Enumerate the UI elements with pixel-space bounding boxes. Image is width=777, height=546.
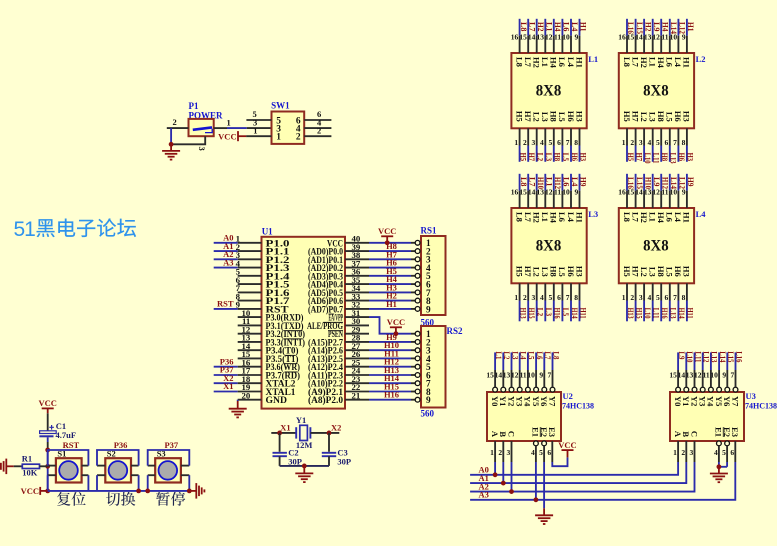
VCC port bottom left (21, 486, 48, 496)
ground below U3 (710, 474, 728, 483)
wire C2 down (279, 456, 281, 466)
svg-text:2: 2 (296, 133, 301, 143)
L3 top pin 12 wire net H12 (545, 174, 563, 208)
svg-text:(A8)P2.0: (A8)P2.0 (308, 395, 343, 406)
svg-text:L4: L4 (566, 212, 576, 223)
U1 right pin names (307, 239, 343, 406)
svg-text:15: 15 (669, 371, 677, 380)
svg-text:L6: L6 (557, 212, 567, 222)
SW1 pin 5 stub (246, 119, 271, 121)
svg-text:13: 13 (644, 188, 652, 197)
L1 bottom pin 6 wire net L5 (557, 128, 571, 162)
svg-text:L5: L5 (665, 267, 675, 277)
svg-text:1: 1 (622, 293, 626, 302)
watermark 51hei forum text (14, 218, 137, 241)
svg-text:7: 7 (566, 138, 570, 147)
svg-text:15: 15 (519, 188, 527, 197)
SW1 pin 1 stub (246, 135, 271, 137)
svg-text:14: 14 (495, 371, 503, 380)
L2 top pin 15 wire net L15 (627, 19, 645, 53)
U3 pin B stub (685, 441, 687, 462)
U2 pin C wire to A2 (511, 441, 513, 462)
svg-text:L7: L7 (630, 57, 640, 68)
wire net H1 U1 pin 32 to RS1 pin 9 (345, 308, 369, 310)
wire RST vertical (47, 450, 49, 491)
U1 pin 8 stub (238, 300, 262, 302)
junction U3 enable ground (717, 464, 722, 469)
L2 bottom pin 1 wire net H5 (622, 128, 636, 162)
svg-text:6: 6 (557, 293, 561, 302)
ground stem below U2 (543, 508, 545, 515)
svg-text:11: 11 (661, 188, 668, 197)
ground below U2 (535, 515, 553, 524)
svg-text:6: 6 (665, 293, 669, 302)
U3 pin E1 wire to ground (717, 441, 722, 446)
svg-text:4: 4 (540, 138, 544, 147)
svg-text:L6: L6 (665, 212, 675, 222)
wire net A1 at U1 pin 2 (214, 250, 238, 252)
svg-text:L8: L8 (514, 212, 524, 222)
svg-text:H1: H1 (579, 22, 589, 32)
connector P1 POWER (189, 101, 224, 136)
svg-text:10: 10 (670, 188, 678, 197)
U3 inner names (673, 396, 740, 438)
svg-text:11: 11 (661, 33, 668, 42)
svg-text:4: 4 (540, 293, 544, 302)
L1 top pin 12 wire net H4 (545, 19, 563, 53)
svg-text:2: 2 (523, 293, 527, 302)
junction X1 node (277, 431, 282, 436)
L3 inner pin names (514, 212, 584, 278)
svg-text:L6: L6 (665, 57, 675, 67)
svg-text:L4: L4 (566, 57, 576, 68)
L4 top pin 13 wire net L9 (644, 174, 662, 208)
wire net H10 U1 pin 27 to RS2 pin 3 (345, 349, 369, 351)
svg-text:9: 9 (574, 188, 578, 197)
U3 output Y5 pin 10 wire net L14 (710, 351, 728, 392)
SW1 pin 2 stub (304, 135, 331, 137)
svg-text:L2: L2 (639, 112, 649, 122)
U1 pin 30 stub (345, 324, 369, 326)
U3 output Y1 pin 14 wire net L10 (678, 351, 696, 392)
L4 bottom pin 8 wire net H11 (682, 283, 696, 321)
wire X2 to C3 (328, 433, 330, 452)
wire net P37 at U1 pin 17 (214, 374, 238, 376)
svg-text:A3: A3 (223, 257, 233, 267)
svg-text:H1: H1 (574, 57, 584, 68)
svg-text:Y7: Y7 (730, 396, 740, 407)
wire bottom legs of S3 (148, 475, 190, 491)
svg-text:P36: P36 (114, 440, 128, 450)
U2 pin E1 wire to A3 (534, 441, 539, 446)
power VCC at RS2 pin 1 (387, 317, 405, 327)
svg-text:13: 13 (537, 33, 545, 42)
svg-text:74HC138: 74HC138 (562, 402, 594, 411)
svg-text:30P: 30P (337, 456, 351, 466)
svg-text:L6: L6 (557, 57, 567, 67)
pin 1 of P1 / wire to SW1 pin 3 (214, 127, 227, 129)
wire net RST at U1 pin 9 (214, 308, 238, 310)
svg-text:13: 13 (537, 188, 545, 197)
svg-text:10: 10 (527, 371, 535, 380)
wire X2 stub (310, 432, 339, 434)
svg-text:1: 1 (514, 138, 518, 147)
svg-text:12: 12 (545, 33, 553, 42)
svg-text:H1: H1 (686, 22, 696, 32)
svg-text:H4: H4 (549, 57, 559, 69)
S3 pin stubs (148, 466, 190, 476)
svg-text:L7: L7 (630, 212, 640, 223)
svg-text:L1: L1 (588, 54, 598, 64)
L3 bottom pin 1 wire net H13 (514, 283, 528, 321)
svg-text:X2: X2 (331, 422, 341, 432)
svg-text:13: 13 (644, 33, 652, 42)
wire C1 to RST node (47, 437, 49, 442)
junction U2.A on A0 (493, 472, 498, 477)
wire net H15 U1 pin 22 to RS2 pin 8 (345, 391, 369, 393)
wire top bracket of S3 (148, 450, 190, 466)
svg-text:9: 9 (682, 188, 686, 197)
U2 pin A wire to A0 (494, 441, 496, 462)
wire net H14 U1 pin 23 to RS2 pin 7 (345, 382, 369, 384)
svg-text:H8: H8 (553, 153, 563, 162)
pin 3 of P1 (171, 136, 205, 144)
L3 bottom pin 4 wire net L3 (540, 283, 554, 321)
svg-text:14: 14 (635, 188, 643, 197)
svg-text:H2: H2 (639, 212, 649, 223)
RS2 pin circles (415, 331, 420, 402)
svg-text:L2: L2 (536, 308, 546, 317)
wire net A1 bus (470, 462, 686, 483)
U1 pin 29 stub (345, 333, 369, 335)
L2 top pin 9 wire net H1 (682, 19, 696, 53)
svg-text:L2: L2 (536, 153, 546, 162)
svg-text:L5: L5 (665, 112, 675, 122)
svg-text:2: 2 (317, 126, 321, 136)
svg-text:4.7uF: 4.7uF (56, 430, 77, 440)
U3 pin A stub (677, 441, 679, 462)
svg-text:H3: H3 (682, 111, 692, 122)
svg-text:P37: P37 (164, 440, 178, 450)
svg-text:L1: L1 (540, 57, 550, 67)
svg-text:12: 12 (511, 371, 519, 380)
ground left of R1 (0, 459, 6, 475)
L2 top pin 12 wire net H4 (652, 19, 670, 53)
L1 bottom pin 1 wire net H5 (514, 128, 528, 162)
svg-text:H8: H8 (549, 266, 559, 277)
svg-text:15: 15 (486, 371, 494, 380)
svg-text:8X8: 8X8 (643, 238, 669, 255)
svg-text:RST: RST (217, 299, 234, 309)
svg-text:L13: L13 (669, 308, 679, 319)
svg-text:16: 16 (618, 33, 626, 42)
svg-text:8: 8 (574, 293, 578, 302)
wire net X1 at U1 pin 19 (214, 391, 238, 393)
svg-text:RS2: RS2 (447, 326, 464, 336)
svg-text:H5: H5 (514, 266, 524, 277)
wire rail to right ground (189, 490, 196, 492)
svg-text:6: 6 (665, 138, 669, 147)
U1 pin 10 stub (238, 316, 262, 318)
svg-text:14: 14 (528, 188, 536, 197)
svg-text:3: 3 (531, 138, 535, 147)
svg-text:9: 9 (426, 396, 431, 406)
svg-text:VCC: VCC (378, 226, 396, 236)
svg-text:L5: L5 (561, 308, 571, 317)
svg-text:16: 16 (511, 188, 519, 197)
wire net H6 U1 pin 37 to RS1 pin 4 (345, 267, 369, 269)
svg-text:2: 2 (523, 138, 527, 147)
svg-text:2: 2 (498, 448, 502, 457)
svg-text:L5: L5 (557, 267, 567, 277)
svg-text:1: 1 (514, 293, 518, 302)
svg-text:10K: 10K (22, 468, 38, 478)
wire net A3 bus (470, 462, 735, 500)
L1 top pin 16 wire net L8 (511, 19, 529, 53)
svg-text:L8: L8 (622, 212, 632, 222)
svg-text:8X8: 8X8 (536, 83, 562, 100)
U2 output Y0 pin 15 wire net L1 (486, 351, 504, 392)
wire top bracket of S2 (97, 450, 139, 466)
junction X2 node (327, 431, 332, 436)
svg-text:H13: H13 (518, 308, 528, 319)
SW1 pin 4 stub (304, 127, 331, 129)
svg-text:R1: R1 (22, 453, 32, 463)
op: U1 microcontroller body (262, 227, 346, 409)
L3 top pin 15 wire net L7 (519, 174, 537, 208)
svg-text:L3: L3 (588, 209, 598, 219)
svg-text:8: 8 (682, 293, 686, 302)
wire bottom rail of buttons (48, 490, 190, 492)
led matrix L4 8X8 (619, 208, 706, 283)
svg-text:H2: H2 (532, 212, 542, 223)
svg-text:H16: H16 (553, 308, 563, 319)
svg-text:H9: H9 (579, 177, 589, 187)
svg-text:L4: L4 (673, 57, 683, 68)
U1 pin 15 stub (238, 357, 262, 359)
L2 top pin 11 wire net L14 (661, 19, 679, 53)
svg-text:12: 12 (652, 188, 660, 197)
push button S3 暂停 (155, 448, 181, 482)
svg-text:H8: H8 (549, 111, 559, 122)
wire cap ground rail (280, 465, 329, 467)
svg-text:L7: L7 (523, 57, 533, 68)
svg-text:12: 12 (694, 371, 702, 380)
U1 pin 20 GND wire (238, 399, 262, 401)
svg-text:8X8: 8X8 (643, 83, 669, 100)
svg-text:12: 12 (652, 33, 660, 42)
U2 pin B wire to A1 (502, 441, 504, 462)
L4 top pin 15 wire net L15 (627, 174, 645, 208)
junction crystal ground (302, 464, 307, 469)
svg-text:SW1: SW1 (271, 101, 290, 111)
power VCC above C1 (38, 398, 56, 408)
svg-text:30P: 30P (288, 456, 302, 466)
L4 inner pin names (622, 212, 692, 278)
U2 pin E2 wire to ground (542, 441, 547, 446)
svg-text:U3: U3 (746, 391, 756, 401)
svg-text:3: 3 (690, 448, 694, 457)
led matrix L2 8X8 (619, 53, 706, 128)
wire bottom legs of S1 (48, 475, 89, 491)
L1 top pin 14 wire net H2 (528, 19, 546, 53)
svg-text:10: 10 (670, 33, 678, 42)
L2 bottom pin 2 wire net H7 (630, 128, 644, 162)
junction U2.C on A2 (509, 489, 514, 494)
junction rail S3 right (187, 489, 192, 494)
L2 bottom pin 7 wire net H6 (673, 128, 687, 162)
svg-text:H9: H9 (686, 177, 696, 187)
junction U2.B on A1 (501, 481, 506, 486)
svg-text:3: 3 (197, 147, 207, 151)
junction rail S2 right (136, 489, 141, 494)
push button S2 切换 (105, 448, 131, 482)
svg-text:4: 4 (647, 293, 651, 302)
svg-text:GND: GND (266, 396, 288, 406)
svg-text:6: 6 (547, 448, 551, 457)
svg-text:9: 9 (539, 371, 543, 380)
L1 bottom pin 4 wire net L3 (540, 128, 554, 162)
svg-text:Y7: Y7 (547, 396, 557, 407)
svg-text:X1: X1 (223, 381, 233, 391)
L2 top pin 14 wire net H2 (635, 19, 653, 53)
junction VCC pin40 (385, 240, 390, 245)
U2 output Y5 pin 10 wire net L6 (527, 351, 545, 392)
L1 bottom pin 3 wire net L2 (531, 128, 545, 162)
svg-text:H3: H3 (686, 153, 696, 162)
svg-text:3: 3 (639, 138, 643, 147)
L2 bottom pin 5 wire net H8 (656, 128, 670, 162)
wire ground to R1 (6, 465, 13, 467)
svg-text:10: 10 (710, 371, 718, 380)
L4 bottom pin 5 wire net H16 (656, 283, 670, 321)
wire net H2 U1 pin 33 to RS1 pin 8 (345, 300, 369, 302)
L4 top pin 14 wire net H10 (635, 174, 653, 208)
svg-text:H1: H1 (682, 212, 692, 223)
wire net A3 at U1 pin 4 (214, 267, 238, 269)
svg-text:L2: L2 (532, 112, 542, 122)
VCC port at SW1 pin 1 (218, 131, 246, 141)
svg-text:16: 16 (618, 188, 626, 197)
power VCC at U1 pin 40 (378, 226, 396, 236)
L4 top pin 9 wire net H9 (682, 174, 696, 208)
svg-text:RS1: RS1 (421, 226, 438, 236)
resistor network RS1 560 (421, 226, 446, 328)
svg-text:VCC: VCC (218, 131, 236, 141)
ground at P1 (162, 151, 180, 160)
svg-text:12: 12 (545, 188, 553, 197)
ground stem at U1 GND (237, 401, 239, 409)
svg-text:7: 7 (548, 371, 552, 380)
svg-text:H1: H1 (574, 212, 584, 223)
svg-text:U2: U2 (563, 391, 573, 401)
L2 top pin 13 wire net L9 (644, 19, 662, 53)
svg-text:10: 10 (562, 33, 570, 42)
L1 bottom pin 7 wire net H6 (566, 128, 580, 162)
ground stem crystal (303, 466, 305, 473)
svg-text:1: 1 (253, 126, 257, 136)
capacitor C3 30P (322, 447, 351, 466)
svg-text:H3: H3 (682, 266, 692, 277)
svg-text:H5: H5 (514, 111, 524, 122)
svg-text:9: 9 (574, 33, 578, 42)
wire net H4 U1 pin 35 to RS1 pin 6 (345, 283, 369, 285)
svg-text:9: 9 (682, 33, 686, 42)
junction VCC rail left (45, 489, 50, 494)
L4 top pin 16 wire net L16 (618, 174, 636, 208)
svg-text:9: 9 (426, 305, 431, 315)
label 切换 (106, 492, 135, 506)
svg-text:L10: L10 (643, 153, 653, 164)
svg-text:X1: X1 (280, 422, 290, 432)
ground stem below U3 (718, 467, 720, 474)
wire net H7 U1 pin 38 to RS1 pin 3 (345, 258, 369, 260)
svg-text:6: 6 (557, 138, 561, 147)
U2 pin E3 wire to VCC (551, 441, 553, 462)
L1 bottom pin 5 wire net H8 (549, 128, 563, 162)
svg-text:5: 5 (549, 293, 553, 302)
wire net A2 bus (470, 462, 694, 492)
svg-text:8X8: 8X8 (536, 238, 562, 255)
ground at U1 pin 20 (229, 409, 247, 418)
svg-text:1: 1 (276, 133, 281, 143)
crystal Y1 12M (296, 415, 313, 450)
svg-text:11: 11 (520, 371, 527, 380)
L3 bottom pin 2 wire net H15 (523, 283, 537, 321)
svg-text:1: 1 (490, 448, 494, 457)
L3 top pin 13 wire net L1 (537, 174, 555, 208)
svg-text:H11: H11 (686, 308, 696, 319)
svg-text:15: 15 (627, 188, 635, 197)
svg-text:H4: H4 (656, 212, 666, 224)
L4 top pin 12 wire net H12 (652, 174, 670, 208)
svg-text:5: 5 (656, 293, 660, 302)
switch SW1 (271, 101, 304, 144)
svg-text:5: 5 (549, 138, 553, 147)
svg-text:C: C (689, 431, 699, 437)
U1 pin 5 stub (238, 275, 262, 277)
S1 pin stubs (48, 466, 89, 476)
U1 pin 12 stub (238, 333, 262, 335)
svg-text:15: 15 (519, 33, 527, 42)
svg-text:A3: A3 (479, 490, 489, 500)
capacitor C2 30P (273, 447, 302, 466)
svg-text:2: 2 (681, 448, 685, 457)
svg-text:H1: H1 (682, 57, 692, 68)
svg-text:L8: L8 (514, 57, 524, 67)
L4 top pin 11 wire net L14 (661, 174, 679, 208)
L3 bottom pin 7 wire net H14 (566, 283, 580, 321)
pin 2 of P1 (167, 127, 189, 129)
svg-text:3: 3 (507, 448, 511, 457)
svg-text:6: 6 (730, 448, 734, 457)
U1 left pin names (266, 239, 306, 406)
svg-text:9: 9 (722, 371, 726, 380)
junction VCC RS2 (394, 331, 399, 336)
svg-text:560: 560 (421, 409, 435, 419)
L3 top pin 9 wire net H9 (574, 174, 588, 208)
svg-text:14: 14 (528, 33, 536, 42)
svg-text:7: 7 (673, 293, 677, 302)
svg-text:L8: L8 (551, 351, 561, 360)
svg-text:L5: L5 (561, 153, 571, 162)
wire VCC to C1 (47, 413, 49, 431)
wire X1 stub (271, 432, 296, 434)
wire net H9 U1 pin 28 to RS2 pin 2 (345, 341, 369, 343)
wire bottom legs of S2 (97, 475, 139, 491)
L2 top pin 10 wire net L12 (670, 19, 688, 53)
VCC stem C1 (47, 408, 49, 413)
